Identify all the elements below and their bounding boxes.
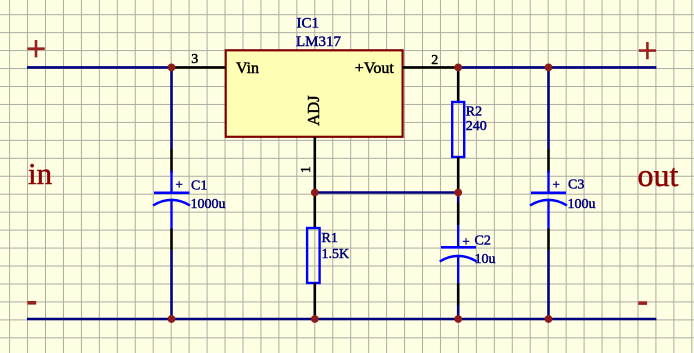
junction node F (C1 bottom rail) — [168, 315, 176, 323]
capacitor C1 body — [153, 171, 190, 229]
plus sign output — [639, 42, 656, 59]
capacitor C3 body — [530, 171, 567, 229]
svg-text:+: + — [176, 177, 183, 192]
op-amp U1 / regulator IC1 LM317 body — [226, 50, 403, 137]
junction node A (input/C1) — [168, 64, 176, 72]
capacitor C1 pin top — [170, 149, 173, 173]
wire bottom rail — [27, 318, 656, 321]
junction node E (R2/C2) — [454, 189, 462, 197]
junction node H (C2 bottom rail) — [454, 315, 462, 323]
resistor R2 pin top — [457, 67, 460, 102]
pin 3 wire (Vin pin) — [172, 66, 226, 69]
junction node I (C3 bottom rail) — [545, 315, 553, 323]
wire ADJ node to R2/C2 node — [315, 191, 458, 194]
svg-text:ADJ: ADJ — [304, 95, 323, 126]
junction node G (R1 bottom rail) — [311, 315, 319, 323]
wire top right: C3 node to output + — [549, 66, 657, 69]
svg-text:3: 3 — [191, 52, 198, 67]
svg-text:C3: C3 — [568, 178, 584, 193]
svg-text:1000u: 1000u — [191, 197, 226, 212]
svg-text:240: 240 — [466, 119, 487, 134]
svg-text:C1: C1 — [191, 179, 207, 194]
wire C3 bottom to bottom rail — [547, 250, 550, 319]
capacitor C2 pin top — [457, 203, 460, 225]
resistor R2 body — [452, 102, 464, 157]
svg-text:IC1: IC1 — [297, 16, 320, 32]
svg-text:in: in — [28, 156, 53, 191]
capacitor C2 wire to bottom rail — [457, 305, 460, 319]
junction node D (ADJ) — [311, 189, 319, 197]
svg-text:out: out — [638, 157, 679, 193]
resistor R1 pin top — [313, 193, 316, 229]
plus sign input — [27, 40, 44, 57]
junction node B (pin2/R2) — [454, 64, 462, 72]
minus sign output — [638, 301, 647, 305]
svg-text:10u: 10u — [475, 252, 496, 267]
capacitor C2 body — [440, 225, 477, 283]
svg-text:100u: 100u — [568, 197, 596, 212]
wire top-left from + input to node A — [27, 66, 172, 69]
svg-text:+: + — [462, 234, 469, 249]
svg-text:C2: C2 — [475, 234, 491, 249]
svg-text:R1: R1 — [322, 231, 338, 246]
pin 1 wire (ADJ pin) — [313, 137, 316, 193]
wire top middle: pin2 node to C3 node — [458, 66, 548, 69]
svg-text:LM317: LM317 — [296, 34, 342, 50]
svg-text:+Vout: +Vout — [355, 60, 395, 77]
svg-text:1.5K: 1.5K — [322, 247, 350, 262]
junction node C (C3 top) — [545, 64, 553, 72]
svg-text:+: + — [553, 177, 560, 192]
svg-text:1: 1 — [298, 166, 313, 173]
resistor R1 body — [307, 228, 320, 283]
pin 2 wire (+Vout pin) — [403, 66, 459, 69]
svg-text:Vin: Vin — [236, 60, 259, 77]
svg-text:2: 2 — [431, 53, 438, 68]
resistor R2 pin bottom — [457, 157, 460, 193]
capacitor C2 pin bottom — [457, 283, 460, 305]
capacitor C1 pin bottom — [170, 229, 173, 251]
capacitor C3 pin top — [547, 149, 550, 173]
wire C1 bottom to bottom rail — [170, 250, 173, 319]
resistor R1 pin bottom — [313, 283, 316, 319]
wire C3 node down to C3 — [547, 67, 550, 149]
capacitor C2 wire stub from node — [457, 193, 460, 204]
svg-text:R2: R2 — [466, 104, 482, 119]
wire node A down to C1 — [170, 67, 173, 149]
capacitor C3 pin bottom — [547, 229, 550, 251]
minus sign input — [27, 301, 36, 305]
